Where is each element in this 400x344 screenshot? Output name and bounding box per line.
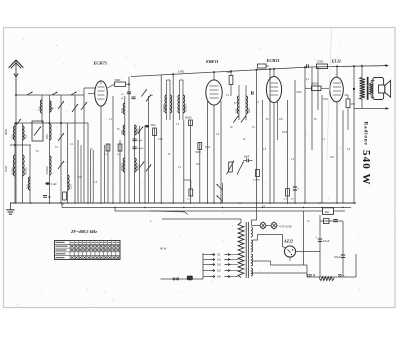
svg-text:EBF11: EBF11 bbox=[205, 59, 219, 64]
svg-text:15000: 15000 bbox=[184, 104, 188, 112]
svg-text:500: 500 bbox=[11, 134, 15, 139]
svg-text:1000: 1000 bbox=[136, 128, 140, 135]
svg-text:5000: 5000 bbox=[115, 78, 121, 82]
svg-text:050: 050 bbox=[45, 134, 49, 139]
svg-text:3000: 3000 bbox=[323, 99, 329, 101]
svg-text:16µF: 16µF bbox=[334, 255, 341, 259]
svg-text:30000: 30000 bbox=[136, 163, 140, 171]
svg-text:20000: 20000 bbox=[11, 167, 15, 175]
svg-text:5000: 5000 bbox=[282, 132, 288, 134]
svg-text:16µF: 16µF bbox=[323, 239, 330, 243]
svg-text:3 MΩ: 3 MΩ bbox=[178, 70, 185, 74]
svg-text:15000: 15000 bbox=[162, 104, 166, 112]
svg-text:20000: 20000 bbox=[120, 163, 124, 171]
svg-text:2F=469,5 kHz: 2F=469,5 kHz bbox=[70, 229, 97, 234]
svg-text:540 W: 540 W bbox=[360, 150, 372, 186]
svg-text:AZ12: AZ12 bbox=[283, 239, 293, 244]
svg-text:Radione: Radione bbox=[362, 122, 368, 146]
svg-text:0,05µF: 0,05µF bbox=[137, 148, 145, 150]
svg-text:0,05: 0,05 bbox=[158, 139, 163, 141]
svg-text:4000: 4000 bbox=[4, 128, 8, 135]
svg-text:5000: 5000 bbox=[297, 92, 303, 94]
svg-text:030: 030 bbox=[234, 108, 238, 113]
svg-text:ECH75: ECH75 bbox=[93, 61, 108, 66]
svg-text:100: 100 bbox=[120, 108, 124, 113]
svg-text:17000: 17000 bbox=[317, 61, 324, 64]
svg-text:5000: 5000 bbox=[196, 152, 202, 154]
svg-text:100: 100 bbox=[26, 184, 30, 189]
svg-text:0,1µF: 0,1µF bbox=[51, 183, 58, 186]
svg-text:50 ~: 50 ~ bbox=[338, 274, 345, 278]
svg-text:25pF: 25pF bbox=[244, 156, 250, 159]
svg-text:4,7V 0,3A: 4,7V 0,3A bbox=[279, 224, 292, 228]
svg-text:40 W: 40 W bbox=[160, 247, 167, 251]
svg-text:1000: 1000 bbox=[4, 165, 8, 172]
svg-text:ECH11: ECH11 bbox=[266, 58, 280, 63]
svg-text:15000: 15000 bbox=[45, 166, 49, 174]
svg-text:700: 700 bbox=[24, 134, 28, 139]
svg-text:160: 160 bbox=[325, 210, 330, 214]
svg-text:1MΩ: 1MΩ bbox=[151, 125, 156, 127]
svg-text:40: 40 bbox=[51, 106, 55, 110]
svg-text:220 V: 220 V bbox=[307, 274, 316, 278]
svg-text:500: 500 bbox=[120, 129, 124, 134]
svg-text:30000: 30000 bbox=[311, 83, 318, 86]
svg-text:50000: 50000 bbox=[185, 118, 192, 120]
svg-text:020: 020 bbox=[247, 108, 251, 113]
svg-text:30000: 30000 bbox=[24, 167, 28, 175]
svg-text:5000: 5000 bbox=[205, 147, 211, 149]
svg-text:0,1µF: 0,1µF bbox=[137, 140, 143, 142]
svg-text:EL11: EL11 bbox=[331, 59, 342, 64]
svg-text:150: 150 bbox=[69, 184, 73, 189]
svg-text:2A: 2A bbox=[307, 220, 310, 223]
svg-text:0,5MΩ: 0,5MΩ bbox=[253, 180, 260, 182]
